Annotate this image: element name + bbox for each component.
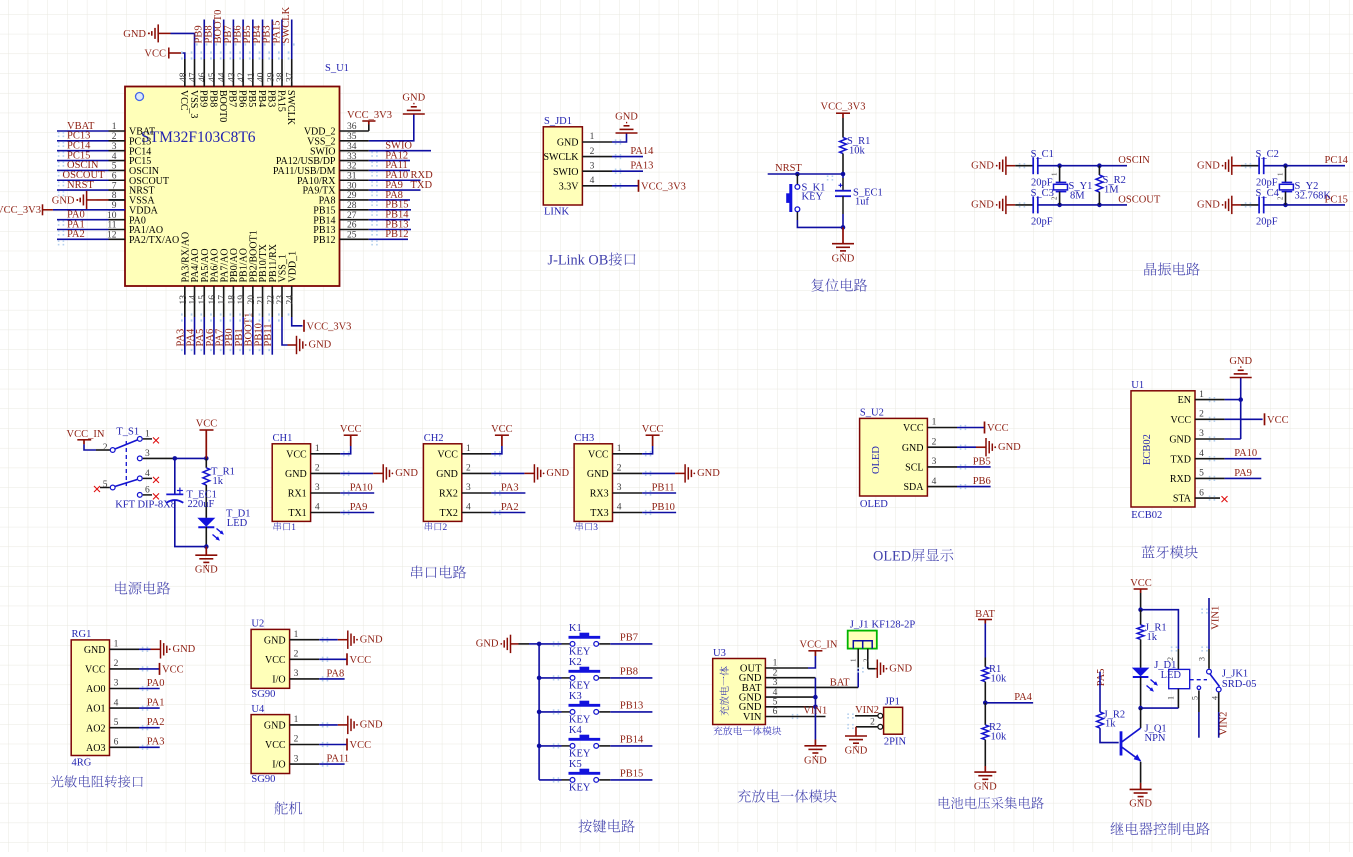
svg-text:VCC_3V3: VCC_3V3	[347, 110, 392, 121]
caption jing zhen dian lu	[1144, 263, 1199, 276]
wire RG1 pin1 to ground	[139, 648, 151, 650]
resistor J_R1	[1137, 625, 1144, 640]
mcu pin 10 PA0	[109, 219, 126, 221]
power port VCC at bluetooth	[1264, 413, 1266, 425]
svg-text:SCL: SCL	[905, 463, 923, 474]
wire GND pin to bus	[1225, 438, 1241, 440]
relay switch pin 5	[1197, 686, 1201, 690]
svg-text:GND: GND	[264, 721, 286, 732]
junction crystal2 bottom	[1283, 203, 1288, 208]
svg-text:5: 5	[1199, 469, 1204, 479]
mcu pin 2 PC13	[109, 140, 126, 142]
JP1 pin 1	[878, 713, 883, 718]
svg-text:47: 47	[189, 72, 199, 82]
svg-text:PA11: PA11	[327, 754, 350, 765]
switch T_S1 pin 5	[110, 485, 115, 490]
wire pin1 to VCC	[491, 446, 502, 454]
svg-text:CH1: CH1	[273, 433, 293, 444]
svg-text:20pF: 20pF	[1256, 217, 1278, 228]
compile mask dots bottom	[181, 313, 296, 315]
wire net PA1	[57, 229, 109, 231]
module S_U2 OLED body	[860, 418, 928, 496]
svg-text:41: 41	[247, 72, 257, 82]
svg-text:PA2/TX/AO: PA2/TX/AO	[129, 235, 179, 246]
U1 pin 1 EN	[1195, 399, 1225, 401]
connector CH3 body	[574, 444, 612, 522]
svg-text:PA10: PA10	[350, 482, 373, 493]
svg-text:3: 3	[145, 449, 150, 459]
connector RG1 body	[71, 640, 109, 756]
svg-text:VCC_IN: VCC_IN	[67, 429, 105, 440]
U1 pin 4 TXD	[1195, 458, 1225, 460]
mcu pin 42 PB6	[242, 59, 244, 87]
wire net PA0 rg	[139, 688, 160, 690]
wire net OSCIN	[1038, 165, 1127, 167]
wire VCC pin to port	[1225, 418, 1263, 420]
module U3 body	[713, 659, 766, 725]
svg-text:VCC: VCC	[286, 449, 307, 460]
power port VCC at OLED	[984, 422, 986, 434]
connector S_JD1 J-Link body	[543, 127, 582, 205]
junction key bus K4	[537, 744, 542, 749]
svg-text:GND: GND	[971, 160, 994, 171]
wire net PB7	[232, 20, 234, 60]
svg-text:PB5: PB5	[973, 456, 991, 467]
svg-text:TX2: TX2	[440, 508, 458, 519]
svg-text:4RG: 4RG	[72, 758, 92, 769]
wire LED to collector junction	[1140, 677, 1142, 708]
svg-text:1: 1	[590, 132, 595, 142]
svg-text:4: 4	[466, 503, 471, 513]
wire net PC15	[57, 160, 109, 162]
wire net PA8	[369, 199, 410, 201]
wire bus to K3	[539, 711, 561, 713]
svg-text:17: 17	[218, 295, 228, 305]
CH3 pin 3 RX3	[613, 492, 643, 494]
capacitor S_C2	[1258, 157, 1260, 174]
svg-text:3: 3	[466, 483, 471, 493]
wire net PA9	[369, 189, 421, 191]
wire VDD_2 to VCC_3V3	[368, 125, 370, 132]
junction crystal top	[1057, 163, 1062, 168]
wire RG1 pin2 to VCC	[139, 668, 159, 670]
junction VCC rail	[204, 456, 209, 461]
wire bus to K4	[539, 745, 561, 747]
svg-text:2: 2	[1051, 196, 1059, 200]
svg-text:PB14: PB14	[620, 735, 644, 746]
svg-text:GND: GND	[285, 469, 307, 480]
switch T_S1 pin 1	[137, 437, 142, 442]
svg-text:3: 3	[112, 142, 117, 152]
wire gnd to key bus	[511, 643, 519, 645]
svg-text:35: 35	[347, 132, 357, 142]
mcu pin 17 PA7/AO	[223, 286, 225, 317]
ground at S_C4	[1231, 196, 1233, 214]
wire net SWIO	[369, 150, 431, 152]
svg-text:15: 15	[198, 295, 208, 305]
svg-text:3: 3	[1199, 429, 1204, 439]
resistor S_R2	[1098, 166, 1100, 175]
svg-text:SWIO: SWIO	[553, 167, 579, 178]
svg-text:PA3: PA3	[147, 737, 165, 748]
svg-text:3: 3	[114, 679, 119, 689]
wire net BOOT1	[252, 317, 254, 355]
svg-text:SWCLK: SWCLK	[544, 152, 580, 163]
wire net PA3 rg	[139, 746, 160, 748]
wire PA5 to J_R2	[1099, 672, 1101, 712]
svg-text:VDD_1: VDD_1	[287, 251, 298, 283]
svg-text:S_U2: S_U2	[860, 408, 884, 419]
wire 3.3V to VCC_3V3	[612, 185, 639, 187]
power port VCC	[501, 435, 503, 446]
svg-text:TX1: TX1	[288, 508, 306, 519]
svg-text:KEY: KEY	[569, 783, 591, 794]
switch T_S1 pin 2	[110, 448, 115, 453]
svg-text:I/O: I/O	[272, 760, 285, 771]
svg-text:OLED: OLED	[873, 549, 911, 565]
svg-text:BOOT0: BOOT0	[217, 90, 228, 122]
wire net PA4	[985, 702, 1033, 704]
svg-text:GND: GND	[360, 634, 383, 645]
svg-text:1: 1	[1051, 172, 1059, 176]
wire net PB9	[203, 20, 205, 60]
connector J_J1 KF128-2P body	[848, 631, 877, 649]
ground at S_C1	[1005, 157, 1007, 175]
J_J1 pin 2	[867, 649, 869, 669]
wire bus to K2	[539, 677, 561, 679]
wire gnd to S_C4	[1232, 204, 1241, 206]
svg-text:SWCLK: SWCLK	[281, 6, 292, 43]
svg-text:GND: GND	[395, 468, 418, 479]
wire R2 to ground	[984, 740, 986, 766]
svg-text:1: 1	[294, 715, 299, 725]
resistor S_R1	[840, 138, 847, 154]
svg-text:PB11: PB11	[263, 324, 274, 347]
svg-text:VCC: VCC	[350, 740, 372, 751]
wire pin2 to ground	[491, 472, 524, 474]
U3 pin 2 GND	[765, 677, 815, 679]
compile mask dots top	[181, 51, 296, 53]
svg-text:2: 2	[103, 443, 108, 453]
svg-text:AO2: AO2	[86, 723, 105, 734]
svg-text:J_J1: J_J1	[850, 620, 869, 631]
no connect X pin6	[153, 493, 159, 499]
svg-text:1: 1	[932, 418, 937, 428]
svg-text:PA2: PA2	[147, 717, 165, 728]
svg-text:GND: GND	[402, 93, 425, 104]
ground above J-Link	[616, 132, 638, 134]
svg-text:40: 40	[257, 72, 267, 82]
wire net PA11	[319, 763, 344, 765]
capacitor T_EC1	[174, 458, 176, 494]
wire net PA11	[369, 169, 410, 171]
key K1	[570, 642, 575, 647]
svg-text:RX3: RX3	[590, 489, 609, 500]
svg-text:32.768K: 32.768K	[1295, 191, 1332, 202]
resistor R2	[982, 725, 989, 740]
RG1 pin 3 AO0	[110, 688, 140, 690]
power port VCC	[350, 435, 352, 446]
svg-text:VCC: VCC	[144, 49, 166, 60]
ground at U4	[347, 716, 349, 734]
svg-text:23: 23	[276, 295, 286, 305]
switch T_S1 pin 6	[137, 493, 142, 498]
module U4 SG90 body	[251, 715, 290, 774]
power port VCC	[652, 435, 654, 446]
wire node to key	[796, 174, 798, 184]
svg-text:25: 25	[347, 231, 357, 241]
svg-text:VCC: VCC	[437, 449, 458, 460]
wire net PA9	[340, 512, 374, 514]
mcu pin 26 PB13	[340, 229, 369, 231]
wire cap to bottom node	[842, 196, 844, 214]
RG1 pin 1 GND	[110, 648, 140, 650]
wire net PC13	[57, 140, 109, 142]
wire K4 to net PB14	[599, 745, 610, 747]
svg-text:PB11: PB11	[652, 482, 675, 493]
wire LED to gnd node	[205, 527, 207, 547]
caption lan ya mo kuai	[1142, 545, 1198, 558]
svg-text:OSCOUT: OSCOUT	[1118, 194, 1161, 205]
svg-text:20pF: 20pF	[1256, 178, 1278, 189]
svg-text:2: 2	[114, 659, 119, 669]
svg-text:KEY: KEY	[569, 715, 591, 726]
svg-text:U4: U4	[251, 704, 265, 715]
key K3	[570, 710, 575, 715]
ground right of CH2	[533, 464, 535, 482]
svg-text:GND: GND	[476, 639, 499, 650]
svg-text:20pF: 20pF	[1031, 217, 1053, 228]
svg-text:PA1: PA1	[147, 698, 165, 709]
svg-text:I/O: I/O	[272, 675, 285, 686]
svg-text:J_JK1: J_JK1	[1222, 669, 1248, 680]
svg-text:JP1: JP1	[885, 697, 900, 708]
capacitor S_C1	[1032, 157, 1034, 174]
svg-text:AO1: AO1	[86, 704, 105, 715]
svg-text:PB7: PB7	[620, 633, 638, 644]
ground at RG1	[160, 640, 162, 658]
RG1 pin 4 AO1	[110, 707, 140, 709]
caption chuan kou dian lu	[411, 566, 466, 579]
ground at VSSA pin 8	[86, 191, 88, 209]
mcu pin 38 PA15	[281, 59, 283, 87]
junction U3 gnd pin4	[813, 695, 818, 700]
mcu pin 36 VDD_2	[340, 130, 369, 132]
svg-text:VCC: VCC	[491, 424, 513, 435]
caption OLED ping xian shi	[873, 549, 953, 565]
wire K5 to net PB15	[599, 779, 610, 781]
U3 pin 6 VIN	[765, 716, 825, 718]
mcu pin 43 PB7	[232, 59, 234, 87]
svg-text:2: 2	[315, 464, 320, 474]
wire pin1 to VCC	[340, 446, 351, 454]
ground at U2	[347, 631, 349, 649]
wire net PA3	[491, 492, 525, 494]
wire net OSCOUT	[1038, 204, 1127, 206]
svg-text:GND: GND	[587, 469, 609, 480]
wire net PB13	[369, 229, 411, 231]
wire to ground	[205, 547, 207, 556]
svg-text:30: 30	[347, 181, 357, 191]
ground at S_C2	[1231, 157, 1233, 175]
svg-text:1: 1	[315, 444, 320, 454]
svg-text:K1: K1	[569, 623, 582, 634]
capacitor S_C3	[1032, 196, 1034, 213]
mcu pin 35 VSS_2	[340, 140, 369, 142]
wire net PB1	[242, 317, 244, 355]
vertical text chong fang dian yi ti	[720, 666, 729, 715]
wire net PA2	[491, 512, 525, 514]
svg-text:2: 2	[932, 437, 937, 447]
svg-text:8M: 8M	[1070, 191, 1085, 202]
svg-text:PB13: PB13	[620, 701, 643, 712]
wire pin5 down	[1198, 691, 1200, 713]
svg-text:1: 1	[1167, 696, 1176, 700]
svg-text:PB4: PB4	[256, 90, 267, 107]
CH2 pin 2 GND	[462, 472, 492, 474]
svg-text:K2: K2	[569, 657, 582, 668]
svg-text:RXD: RXD	[1170, 474, 1191, 485]
power port VCC at top	[168, 48, 170, 59]
svg-text:4: 4	[773, 688, 778, 698]
mcu pin 5 OSCIN	[109, 169, 126, 171]
svg-text:SDA: SDA	[903, 482, 924, 493]
svg-text:VIN1: VIN1	[803, 706, 827, 717]
svg-text:10k: 10k	[849, 146, 866, 157]
svg-text:21: 21	[257, 295, 267, 305]
mcu pin 25 PB12	[340, 238, 369, 240]
svg-text:KEY: KEY	[569, 681, 591, 692]
svg-text:PA2: PA2	[67, 229, 85, 240]
mcu pin 39 PB3	[271, 59, 273, 87]
junction key bus K3	[537, 710, 542, 715]
svg-text:S_C1: S_C1	[1031, 149, 1054, 160]
mcu pin 1 VBAT	[109, 130, 126, 132]
junction key bus K1	[537, 642, 542, 647]
mcu pin 41 PB5	[252, 59, 254, 87]
switch lever pin5-pin4	[115, 480, 137, 487]
svg-text:GND: GND	[889, 663, 912, 674]
CH1 pin 2 GND	[311, 472, 341, 474]
svg-text:3: 3	[1198, 657, 1207, 661]
svg-text:STM32F103C8T6: STM32F103C8T6	[141, 129, 256, 146]
mcu pin 14 PA4/AO	[194, 286, 196, 317]
svg-text:PB15: PB15	[620, 769, 643, 780]
connector pin 2 SWCLK	[582, 156, 612, 158]
svg-text:TXD: TXD	[1170, 454, 1191, 465]
svg-text:VCC: VCC	[265, 655, 286, 666]
svg-text:20: 20	[247, 295, 257, 305]
mcu pin 44 BOOT0	[223, 59, 225, 87]
wire net PB5	[957, 466, 991, 468]
relay coil pin 2	[1177, 649, 1179, 669]
U4 pin 1 GND	[290, 724, 320, 726]
svg-text:26: 26	[347, 221, 357, 231]
svg-text:2: 2	[1199, 410, 1204, 420]
svg-text:ECB02: ECB02	[1131, 510, 1162, 521]
svg-text:VCC: VCC	[1267, 415, 1289, 426]
svg-text:LED: LED	[1161, 670, 1182, 681]
svg-text:1: 1	[617, 444, 622, 454]
svg-text:2: 2	[590, 147, 595, 157]
ground at VSS_1	[296, 336, 298, 354]
U3 pin 1 OUT	[765, 667, 808, 669]
wire net BOOT0	[223, 20, 225, 60]
wire J_R2 to base	[1100, 728, 1119, 743]
module U1 ECB02 body	[1131, 391, 1195, 507]
wire junction to J_R1	[1140, 610, 1142, 625]
key K5	[570, 778, 575, 783]
svg-text:LINK: LINK	[544, 207, 569, 218]
mcu pin 15 PA5/AO	[203, 286, 205, 317]
mcu pin 29 PA8	[340, 199, 369, 201]
svg-text:GND: GND	[1169, 435, 1191, 446]
capacitor S_EC1	[842, 174, 844, 178]
svg-text:1: 1	[112, 122, 117, 132]
svg-text:4: 4	[114, 698, 119, 708]
svg-text:4: 4	[590, 176, 595, 186]
svg-text:T_S1: T_S1	[116, 427, 139, 438]
svg-text:3: 3	[617, 483, 622, 493]
mcu origin marker	[136, 93, 144, 101]
svg-text:VCC: VCC	[196, 419, 218, 430]
connector CH2 body	[423, 444, 461, 522]
svg-text:BAT: BAT	[975, 609, 995, 620]
wire net PA14	[612, 156, 643, 158]
U3 pin 4 GND	[765, 696, 815, 698]
svg-text:KEY: KEY	[569, 749, 591, 760]
wire bus to K5	[539, 779, 561, 781]
wire net PA2 rg	[139, 727, 160, 729]
caption dian yuan dian lu	[115, 582, 170, 595]
svg-text:VCC: VCC	[178, 90, 189, 111]
wire EN to gnd bus	[1225, 399, 1241, 401]
svg-text:5: 5	[112, 162, 117, 172]
svg-text:VCC: VCC	[987, 423, 1009, 434]
power port VCC at U4	[346, 739, 348, 751]
svg-text:AO3: AO3	[86, 743, 105, 754]
wire net PA3	[184, 317, 186, 355]
svg-text:GND: GND	[436, 469, 458, 480]
caption an jian dian lu	[578, 819, 634, 832]
svg-text:KEY: KEY	[802, 192, 824, 203]
svg-text:U2: U2	[251, 619, 264, 630]
U4 pin 2 VCC	[290, 744, 320, 746]
wire R1 to node	[984, 682, 986, 703]
wire net PC14	[1264, 165, 1345, 167]
sublabel 串口2	[425, 522, 448, 533]
svg-text:3: 3	[773, 678, 778, 688]
S_U2 pin 3 SCL	[927, 466, 957, 468]
svg-text:19: 19	[237, 295, 247, 305]
svg-text:GND: GND	[832, 254, 855, 265]
mcu pin 19 PB1/AO	[242, 286, 244, 317]
svg-text:PA9: PA9	[1234, 468, 1252, 479]
U1 pin 6 STA	[1195, 497, 1220, 499]
mcu pin 32 PA11/USB/DM	[340, 169, 369, 171]
svg-text:24: 24	[286, 295, 296, 305]
wire net PA6	[213, 317, 215, 355]
wire net OSCOUT	[57, 179, 109, 181]
svg-text:45: 45	[208, 72, 218, 82]
ground below relay	[1130, 788, 1152, 790]
svg-text:EN: EN	[1178, 395, 1191, 406]
mcu pin 40 PB4	[262, 59, 264, 87]
wire net PA13	[612, 170, 643, 172]
svg-text:20pF: 20pF	[1031, 178, 1053, 189]
svg-text:GND: GND	[1129, 799, 1152, 810]
wire net PB6	[957, 486, 991, 488]
